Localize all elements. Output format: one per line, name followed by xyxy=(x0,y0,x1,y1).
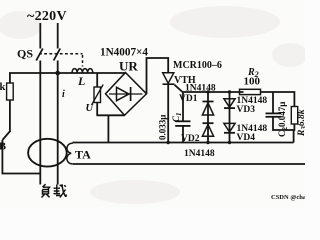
rectifier bridge UR inner line xyxy=(109,93,143,95)
wire varistor to bridge bottom vertex xyxy=(97,114,125,116)
label R3 6.8k rotated xyxy=(297,109,308,137)
resistor R3 xyxy=(291,107,297,125)
capacitor C1 bottom lead xyxy=(182,126,184,143)
switch QS linkage dashed xyxy=(39,54,83,67)
svg-text:UR: UR xyxy=(119,59,138,74)
label VTH xyxy=(174,75,196,86)
svg-text:i: i xyxy=(62,89,65,100)
wire tap to R1 at y73 xyxy=(10,73,58,83)
svg-text:L: L xyxy=(77,74,85,88)
capacitor C2 plates xyxy=(266,112,282,114)
label 1N4148 VD3 xyxy=(237,96,268,115)
varistor U body xyxy=(94,87,101,103)
svg-text:1N4148: 1N4148 xyxy=(185,84,216,94)
wire bottom bus xyxy=(73,142,294,144)
transformer TA core ellipse xyxy=(28,139,67,167)
label load 负载 (drawn strokes) xyxy=(42,184,67,197)
diode VD2 (pointing up) xyxy=(203,122,214,124)
label 1N4148 VD4 xyxy=(237,124,268,143)
wire bridge right vertex up and over to VTH xyxy=(147,58,169,94)
label 100 xyxy=(244,76,261,88)
label 1N4148 top xyxy=(185,84,216,94)
wire R2 right to corner xyxy=(261,92,295,107)
diode VD1 (pointing up) xyxy=(207,92,209,143)
resistor R1 xyxy=(7,83,14,100)
varistor U bottom lead xyxy=(96,103,98,116)
inductor L coil xyxy=(72,69,93,73)
label R2 xyxy=(247,67,259,79)
svg-text:MCR100–6: MCR100–6 xyxy=(173,60,222,71)
rectifier bridge UR diamond xyxy=(106,73,147,116)
wire AC line 1 upper xyxy=(39,23,41,49)
resistor R2 xyxy=(240,89,261,94)
wire gate rail xyxy=(183,91,244,93)
label B (SB, cut at edge) xyxy=(0,142,6,153)
svg-text:~220V: ~220V xyxy=(27,9,67,24)
label VD2 xyxy=(181,134,200,144)
svg-text:VD1: VD1 xyxy=(179,94,198,104)
label k (R1 value, cut at edge) xyxy=(0,82,6,93)
svg-text:VD4: VD4 xyxy=(237,133,256,143)
svg-text:CSDN @char: CSDN @char xyxy=(271,194,305,201)
watermark CSDN xyxy=(271,194,309,201)
switch QS pole 2 blade xyxy=(54,49,61,61)
diode VD3 (pointing down) xyxy=(229,92,231,143)
label ~220V xyxy=(27,9,67,24)
node dots at bus taps xyxy=(167,141,232,144)
wire L line from node to bridge xyxy=(58,72,126,74)
rectifier bridge UR inner diode xyxy=(117,87,130,100)
label TA xyxy=(75,148,91,162)
wire AC line 1 lower xyxy=(39,61,41,185)
switch SB blade xyxy=(2,131,10,141)
capacitor C2 bottom lead xyxy=(273,117,294,143)
thyristor VTH cathode bar xyxy=(163,83,175,85)
label 1N4148 bottom xyxy=(184,149,215,159)
wire AC line 2 upper xyxy=(57,23,59,49)
thyristor VTH triangle xyxy=(163,73,174,84)
capacitor C1 top lead xyxy=(182,92,184,121)
label UR xyxy=(119,59,138,74)
svg-text:k: k xyxy=(0,82,6,93)
label QS xyxy=(17,47,33,61)
svg-text:100: 100 xyxy=(244,76,261,88)
svg-text:TA: TA xyxy=(75,148,91,162)
wire SB to AC line 1 xyxy=(2,140,40,174)
svg-text:1N4007×4: 1N4007×4 xyxy=(100,47,148,59)
diode VD4 (pointing down) xyxy=(224,123,235,132)
capacitor C2 top lead xyxy=(272,92,274,113)
node dots at rail taps xyxy=(206,90,231,93)
label C2 0.047u rotated xyxy=(277,102,289,137)
label MCR100-6 xyxy=(173,60,222,71)
svg-text:0.033μ: 0.033μ xyxy=(158,115,168,140)
thyristor VTH gate lead xyxy=(175,85,183,92)
wire R3 bottom xyxy=(293,124,296,130)
faint scan smudges xyxy=(0,6,308,204)
label C1 rotated xyxy=(171,112,183,122)
wire drop to bottom bus xyxy=(107,115,109,142)
svg-text:QS: QS xyxy=(17,47,33,61)
svg-text:1N4148: 1N4148 xyxy=(184,149,215,159)
svg-text:R36.8k: R36.8k xyxy=(297,109,305,137)
wire AC line 2 lower xyxy=(57,61,59,185)
varistor U top lead xyxy=(96,73,98,87)
label i current xyxy=(62,89,65,100)
wire R1 to SB xyxy=(9,100,11,131)
label VD1 xyxy=(179,94,198,104)
label U xyxy=(86,103,95,114)
varistor U diagonal xyxy=(92,85,104,106)
label 0.033u rotated xyxy=(158,115,168,140)
label 1N4007x4 xyxy=(100,47,148,59)
wire TA secondary return xyxy=(73,163,305,165)
capacitor C1 plates xyxy=(175,120,190,122)
thyristor VTH cathode wire to bus xyxy=(167,84,169,142)
node junction dot on AC line 2 xyxy=(55,71,60,76)
switch QS pole 1 blade xyxy=(36,49,43,61)
transformer TA secondary winding xyxy=(67,143,73,164)
label L xyxy=(77,74,85,88)
svg-text:VD3: VD3 xyxy=(237,105,256,115)
